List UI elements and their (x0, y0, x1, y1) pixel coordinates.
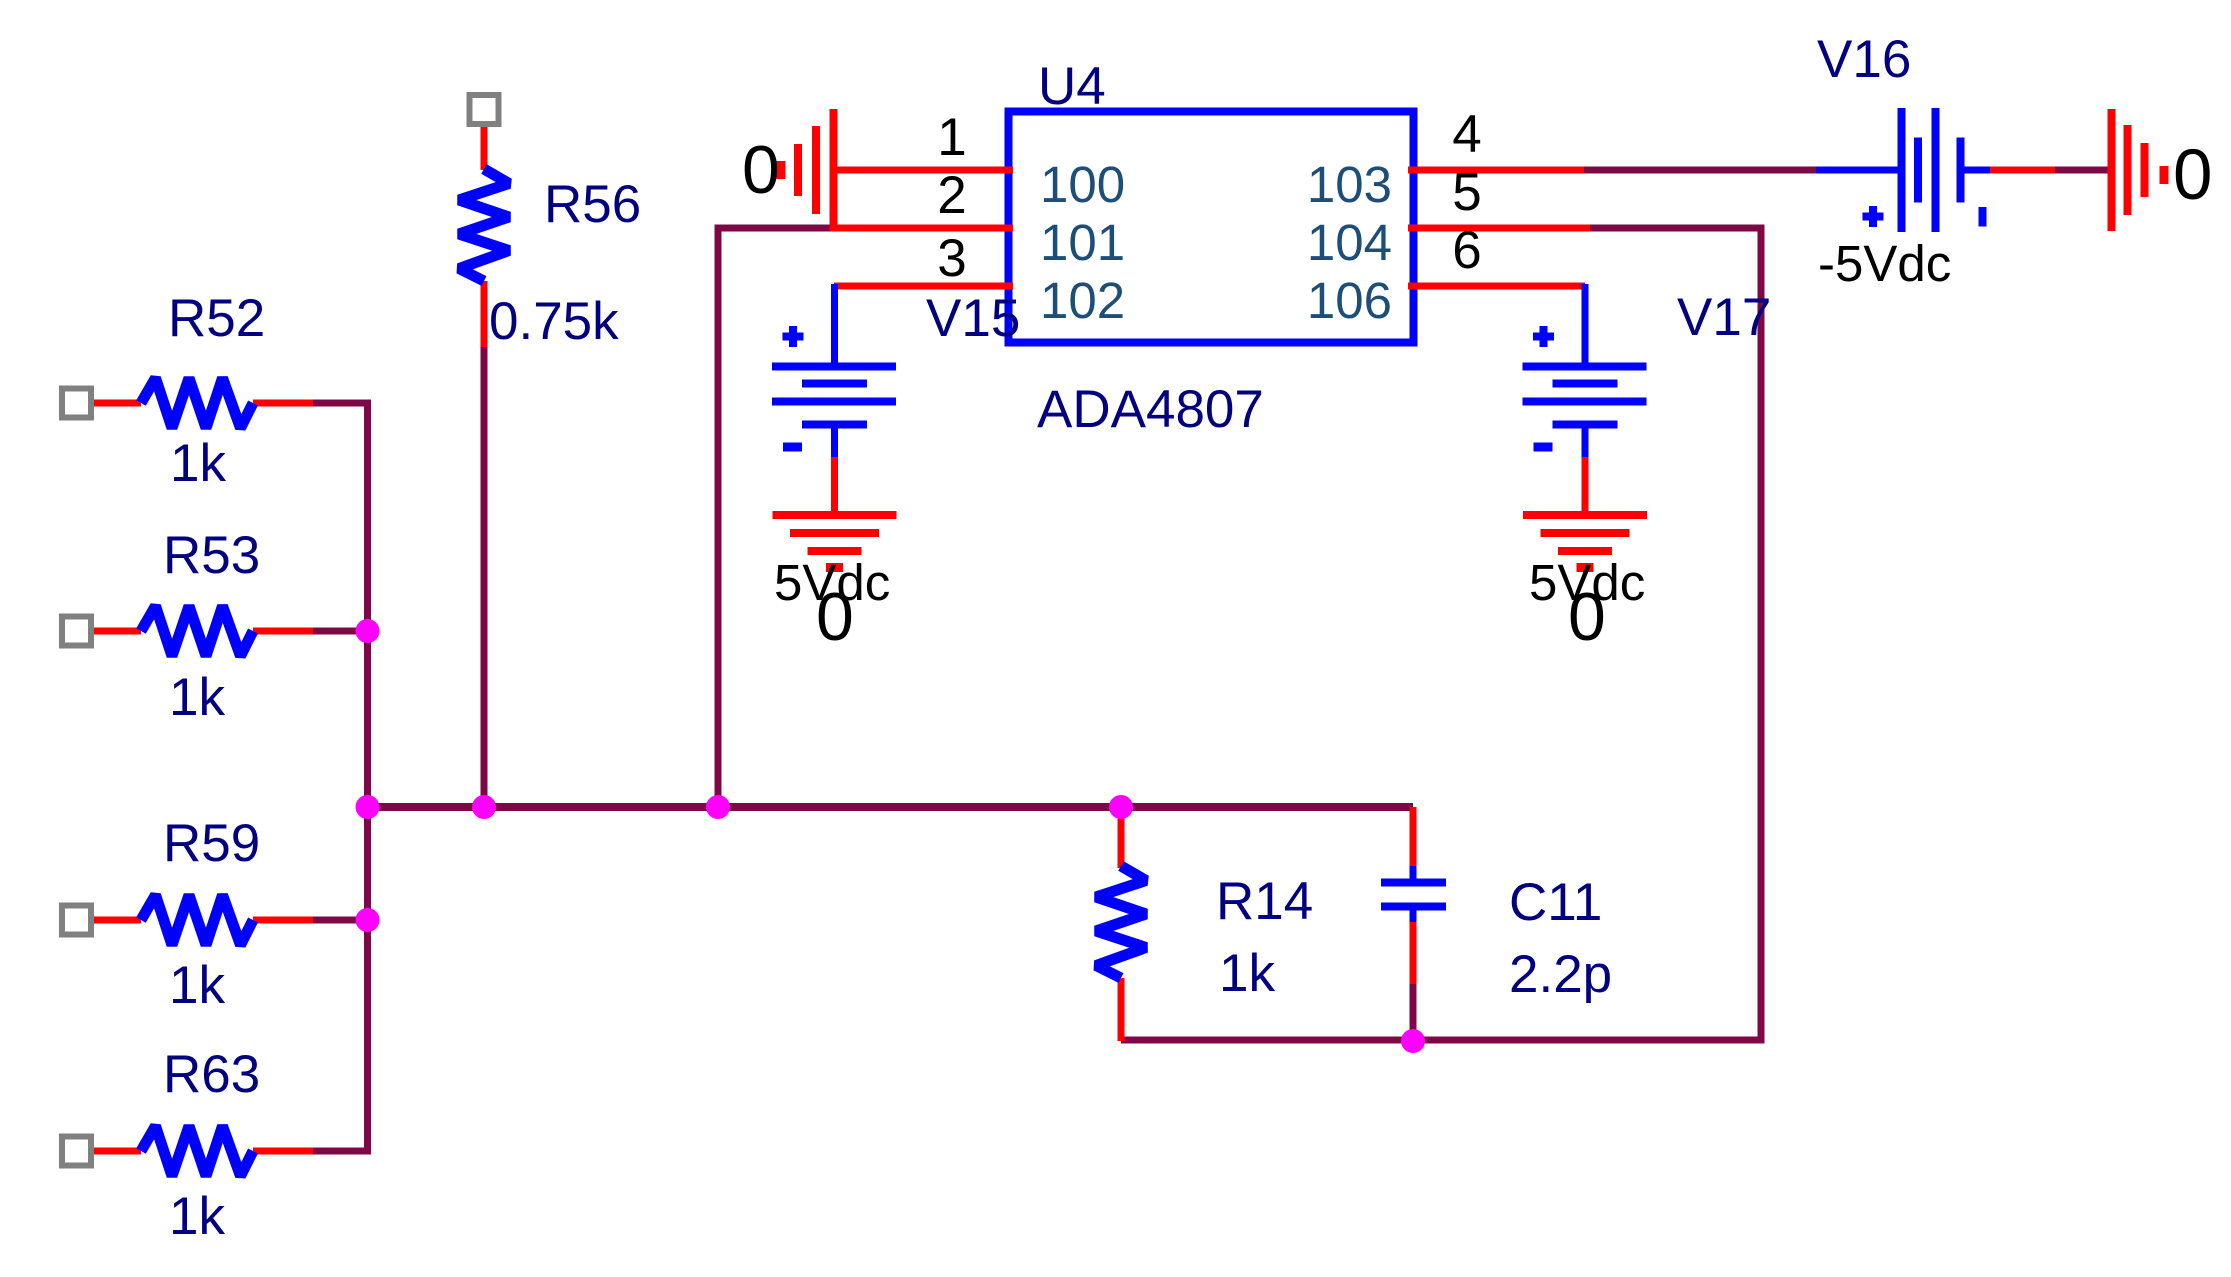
junction on left bus at R59 (356, 908, 380, 932)
svg-text:R52: R52 (168, 289, 265, 348)
svg-text:R56: R56 (544, 175, 641, 234)
wire red stub R53 right (253, 628, 313, 635)
wire pin5 net: right, down right side, and bottom feedback run (1121, 228, 1761, 1040)
port square at R53 input (62, 617, 91, 646)
svg-text:2.2p: 2.2p (1509, 945, 1612, 1004)
wire red stub port to R56 top (481, 124, 488, 170)
svg-text:104: 104 (1307, 214, 1392, 271)
svg-text:1k: 1k (169, 1187, 225, 1246)
svg-text:V16: V16 (1817, 30, 1911, 89)
svg-text:V15: V15 (926, 289, 1020, 348)
ground 0 below V15 (773, 515, 897, 568)
junction on left bus at main bus (356, 795, 380, 819)
wire red C11 bottom stem (1410, 920, 1417, 984)
wire red stub port to R63 (94, 1148, 141, 1155)
wire red pin 5 stub (1408, 225, 1590, 232)
resistor R56 (vertical) (459, 169, 509, 281)
port square at R59 input (62, 906, 91, 935)
svg-text:R14: R14 (1216, 872, 1313, 931)
ground 0 below V17 (1523, 515, 1647, 568)
wire red pin 6 stub (1408, 283, 1585, 290)
svg-text:V17: V17 (1677, 288, 1771, 347)
svg-text:-5Vdc: -5Vdc (1818, 235, 1951, 292)
svg-text:6: 6 (1452, 221, 1481, 280)
battery V15 (772, 284, 896, 457)
svg-text:0: 0 (1568, 579, 1606, 655)
svg-text:102: 102 (1040, 272, 1125, 329)
wire red pin 4 stub (1408, 167, 1584, 174)
junction on left bus at R53 (356, 619, 380, 643)
wire pin4 net to V16 (1584, 167, 1816, 174)
svg-text:R59: R59 (163, 814, 260, 873)
svg-text:ADA4807: ADA4807 (1037, 380, 1264, 439)
wire red V16 right lead to ground (1990, 167, 2055, 174)
wire red stub R56 bottom (481, 281, 488, 347)
svg-text:0.75k: 0.75k (489, 292, 619, 351)
wire net maroon: R52 stub to left bus and left vertical bus down to R63 (310, 403, 368, 1151)
junction bottom run at C11 (1401, 1029, 1425, 1053)
wire R53 to left bus (310, 628, 368, 635)
svg-text:0: 0 (742, 132, 780, 208)
junction main bus at R56 (472, 795, 496, 819)
op-amp U4 (ADA4807) body (1009, 112, 1414, 343)
port square at R63 input (62, 1137, 91, 1166)
svg-text:4: 4 (1452, 105, 1481, 164)
svg-text:106: 106 (1307, 272, 1392, 329)
junction main bus at pin2 wire (706, 795, 730, 819)
wire red stub port to R53 (94, 628, 141, 635)
svg-text:U4: U4 (1038, 57, 1106, 116)
wire red R14 top stem (1118, 807, 1125, 868)
svg-text:101: 101 (1040, 214, 1125, 271)
svg-text:1k: 1k (169, 956, 225, 1015)
wire red stub R59 right (253, 917, 313, 924)
svg-text:0: 0 (2173, 136, 2213, 215)
resistor R53 (141, 606, 253, 656)
svg-text:1k: 1k (1219, 944, 1275, 1003)
svg-text:3: 3 (937, 229, 966, 288)
capacitor C11 (1381, 866, 1446, 922)
svg-text:5: 5 (1452, 163, 1481, 222)
ground 0 right of V16 (right-pointing) (2112, 109, 2165, 231)
wire red stub R52 right (253, 400, 313, 407)
wire red V15 minus stem to ground (831, 455, 838, 515)
svg-text:0: 0 (816, 579, 854, 655)
svg-text:1k: 1k (169, 668, 225, 727)
wire red C11 top stem (1410, 807, 1417, 868)
resistor R14 (vertical) (1096, 866, 1146, 978)
wire red stub port to R52 (94, 400, 141, 407)
wire pin2 net: horizontal then vertical down to main bus (718, 228, 834, 807)
port square at R52 input (62, 389, 91, 418)
svg-text:R53: R53 (163, 526, 260, 585)
wire red pin 1 stub from ground (833, 167, 1013, 174)
svg-text:C11: C11 (1509, 873, 1602, 932)
wire red stub port to R59 (94, 917, 141, 924)
battery V16 (horizontal) (1816, 108, 1990, 232)
wire red stub R63 right (253, 1148, 313, 1155)
svg-text:1: 1 (937, 108, 966, 167)
svg-text:1k: 1k (170, 434, 226, 493)
junction main bus at R14 (1109, 795, 1133, 819)
resistor R63 (141, 1126, 253, 1176)
svg-text:103: 103 (1307, 156, 1392, 213)
wire red V17 minus stem to ground (1582, 455, 1589, 515)
battery V17 (1523, 284, 1647, 457)
wire red pin 2 stub (831, 225, 1013, 232)
svg-text:100: 100 (1040, 156, 1125, 213)
wire C11 bottom stem to bottom run (1410, 984, 1417, 1041)
wire red R14 bottom stem (1118, 978, 1125, 1041)
wire main horizontal bus (summing node) (368, 803, 1414, 811)
svg-text:R63: R63 (163, 1045, 260, 1104)
wire V16 to ground 0 (2055, 167, 2111, 174)
port square at R56 top (470, 95, 499, 124)
resistor R59 (141, 895, 253, 945)
ground 0 at pin 1 (left-pointing) (781, 109, 834, 231)
wire red pin 3 stub from V15 (834, 283, 1013, 290)
wire R59 to left bus (310, 917, 368, 924)
svg-text:2: 2 (937, 166, 966, 225)
resistor R52 (141, 378, 253, 428)
wire R56 bottom to main bus (481, 344, 488, 807)
